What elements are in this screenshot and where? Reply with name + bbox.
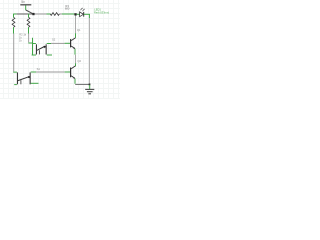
svg-text:Q1: Q1: [77, 28, 81, 32]
pushbutton S1: [17, 67, 40, 84]
wire Q1 base green: [65, 42, 70, 44]
wire bottom run to ground: [75, 83, 89, 85]
junction dot C: [89, 84, 91, 86]
svg-text:S1: S1: [37, 67, 41, 71]
wire S2 BL pin stub: [32, 54, 36, 56]
wire rail green to LED: [62, 13, 75, 15]
wire junction B drop gray: [75, 16, 77, 34]
junction dot B: [74, 13, 76, 15]
wire S2 to Q1 base gray: [51, 42, 65, 44]
wire S2 BR pin stub: [47, 54, 52, 56]
wire R2 bottom stub: [28, 27, 30, 33]
resistor R2: [27, 17, 30, 27]
wire S2 TR pin green: [47, 43, 51, 45]
wire rail gray segment: [35, 13, 47, 15]
junction dot A: [32, 13, 34, 15]
wire S1 BL pin stub: [14, 84, 17, 86]
wire right side gray drop: [88, 18, 90, 84]
wire stub up at x32.4: [32, 38, 34, 43]
svg-text:680: 680: [65, 7, 70, 11]
wire rail green left: [14, 13, 17, 15]
wire Q1 emitter to Q2 collector gray: [75, 55, 77, 64]
wire ground stub green: [89, 85, 91, 89]
wire Q2 emitter pin: [74, 79, 76, 84]
resistor R1: [12, 17, 15, 27]
wire rail dark segment: [17, 13, 33, 15]
power 5V pin: [25, 5, 27, 10]
svg-text:5v: 5v: [21, 0, 25, 4]
transistor Q2: [70, 59, 81, 79]
wire R1 down gray: [13, 34, 15, 72]
resistor R3: [50, 13, 59, 16]
wire S1 BR pin stub: [31, 82, 39, 84]
power 5V bar: [20, 4, 31, 6]
transistor Q1: [70, 28, 81, 49]
wire Q2 collector pin: [75, 63, 77, 66]
wire Q1 emitter pin: [74, 49, 76, 55]
wire S2 TL pin: [33, 43, 36, 45]
wire S1 to Q2 base gray: [36, 71, 65, 73]
wire LED to corner: [84, 13, 90, 15]
wire right corner down green: [88, 14, 90, 18]
grid: [0, 0, 120, 99]
wire 5V diagonal to rail: [26, 10, 34, 14]
svg-text:Q2: Q2: [77, 59, 81, 63]
ground: [85, 89, 94, 93]
wire R2 top stub: [28, 14, 30, 18]
wire junction to LED: [77, 13, 80, 15]
svg-text:S2: S2: [52, 38, 56, 42]
wire S1 TR pin green: [31, 71, 36, 73]
wire R1 to S1 corner: [14, 71, 17, 74]
LED D1: [80, 8, 85, 17]
wire rail green before R3: [47, 13, 51, 15]
wire rail gray after R3: [59, 13, 62, 15]
wire Q2 base green: [65, 71, 70, 73]
wire R2 to S2 corner: [28, 43, 32, 55]
wire R2 down gray: [28, 34, 30, 43]
wire R1 top stub: [13, 14, 15, 18]
pushbutton S2: [36, 38, 56, 55]
wire R1 bottom stub: [13, 27, 15, 33]
wire Q1 collector pin: [75, 33, 77, 38]
svg-text:Red (633nm): Red (633nm): [94, 10, 109, 14]
